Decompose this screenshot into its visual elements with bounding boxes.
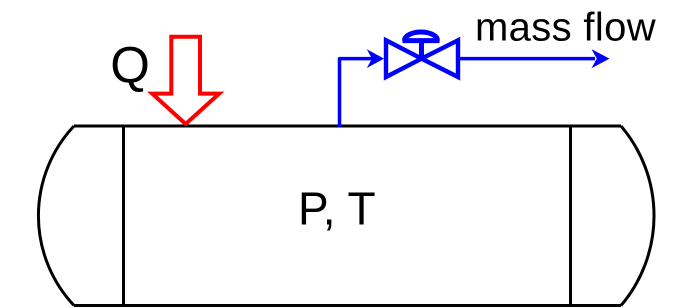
svg-text:P, T: P, T [298, 183, 376, 235]
svg-text:Q: Q [110, 36, 150, 93]
svg-text:mass flow: mass flow [475, 6, 656, 50]
